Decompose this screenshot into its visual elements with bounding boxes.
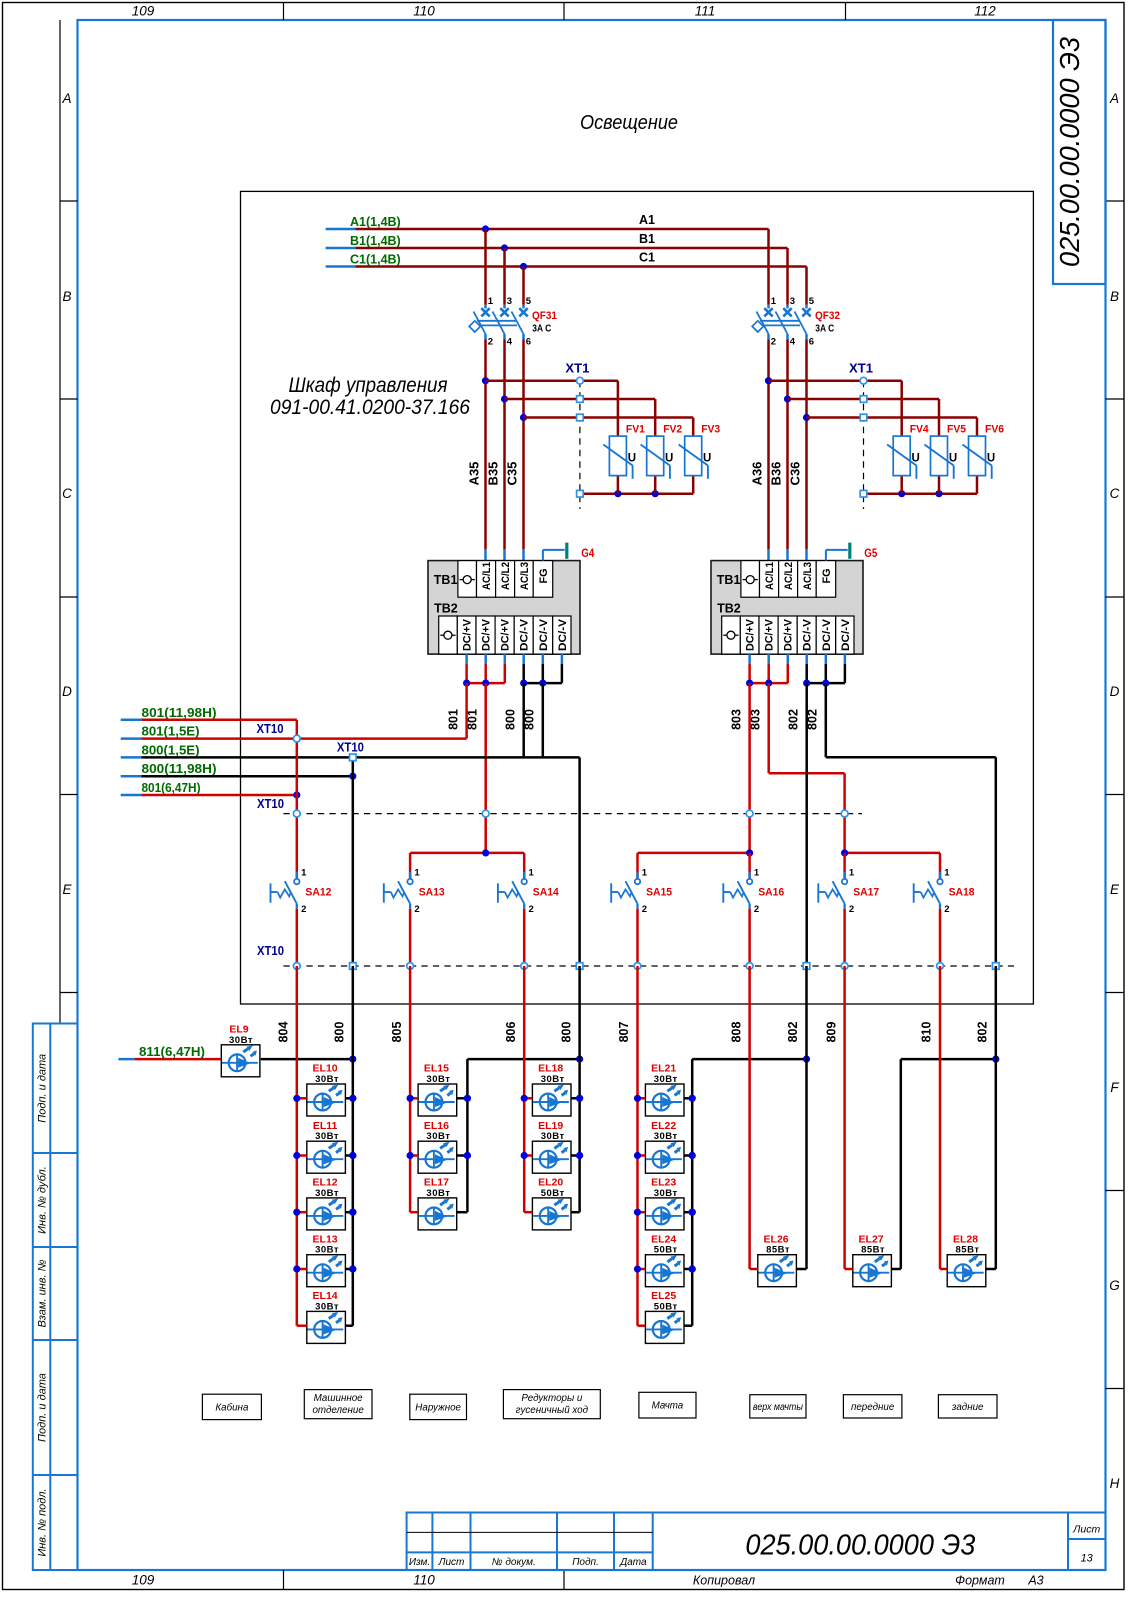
svg-text:3: 3: [507, 296, 512, 307]
svg-text:U: U: [912, 453, 920, 465]
svg-text:1: 1: [301, 868, 307, 879]
svg-text:DC/-V: DC/-V: [802, 618, 814, 651]
svg-text:5: 5: [526, 296, 532, 307]
svg-text:FV4: FV4: [910, 424, 930, 436]
svg-text:30Вт: 30Вт: [541, 1131, 565, 1142]
svg-text:Подп. и дата: Подп. и дата: [37, 1373, 49, 1442]
svg-text:Освещение: Освещение: [580, 112, 678, 134]
svg-text:DC/+V: DC/+V: [745, 618, 757, 651]
svg-text:Наружное: Наружное: [415, 1402, 461, 1413]
svg-text:025.00.00.0000 Э3: 025.00.00.0000 Э3: [745, 1530, 975, 1562]
svg-text:D: D: [1110, 684, 1120, 699]
svg-text:EL25: EL25: [651, 1290, 676, 1302]
svg-text:FV5: FV5: [947, 424, 966, 436]
svg-text:109: 109: [132, 4, 155, 19]
svg-text:1: 1: [754, 868, 760, 879]
svg-text:FV3: FV3: [701, 424, 720, 436]
svg-text:3A C: 3A C: [532, 324, 551, 335]
svg-text:809: 809: [824, 1022, 838, 1043]
svg-text:C36: C36: [788, 462, 803, 486]
svg-text:4: 4: [790, 337, 796, 348]
svg-text:3: 3: [790, 296, 795, 307]
svg-text:807: 807: [617, 1022, 631, 1043]
svg-text:Взам. инв. №: Взам. инв. №: [37, 1259, 49, 1327]
svg-text:DC/-V: DC/-V: [821, 618, 833, 651]
svg-text:XT1: XT1: [565, 362, 589, 376]
svg-text:B35: B35: [486, 462, 501, 486]
svg-text:85Вт: 85Вт: [861, 1245, 885, 1256]
svg-text:E: E: [1110, 882, 1120, 897]
svg-text:FV1: FV1: [626, 424, 645, 436]
svg-text:B36: B36: [769, 462, 784, 486]
svg-text:800: 800: [559, 1022, 573, 1043]
svg-text:85Вт: 85Вт: [956, 1245, 980, 1256]
svg-text:№ докум.: № докум.: [492, 1557, 536, 1568]
svg-text:DC/-V: DC/-V: [557, 618, 569, 651]
svg-text:800: 800: [333, 1022, 347, 1043]
svg-text:EL13: EL13: [313, 1233, 338, 1245]
svg-text:Изм.: Изм.: [409, 1557, 430, 1568]
svg-text:FV6: FV6: [985, 424, 1004, 436]
svg-text:3A C: 3A C: [815, 324, 834, 335]
svg-text:Копировал: Копировал: [693, 1574, 755, 1588]
svg-text:110: 110: [413, 1573, 435, 1588]
svg-text:30Вт: 30Вт: [315, 1245, 339, 1256]
svg-text:EL26: EL26: [764, 1233, 789, 1245]
svg-text:2: 2: [771, 337, 776, 348]
svg-text:U: U: [987, 453, 995, 465]
svg-text:Машинное: Машинное: [314, 1393, 364, 1404]
svg-text:C1: C1: [639, 251, 655, 265]
svg-text:EL18: EL18: [538, 1063, 563, 1075]
svg-text:U: U: [949, 453, 957, 465]
svg-text:110: 110: [413, 4, 435, 19]
svg-text:EL28: EL28: [953, 1233, 978, 1245]
svg-text:Подп. и дата: Подп. и дата: [37, 1054, 49, 1123]
svg-text:XT10: XT10: [257, 722, 284, 736]
svg-text:SA18: SA18: [949, 887, 975, 899]
svg-text:AC/L3: AC/L3: [802, 562, 814, 590]
svg-text:091-00.41.0200-37.166: 091-00.41.0200-37.166: [270, 396, 470, 419]
svg-text:1: 1: [529, 868, 535, 879]
svg-text:TB2: TB2: [717, 602, 741, 616]
svg-text:2: 2: [301, 904, 306, 915]
svg-text:C: C: [1110, 486, 1120, 501]
svg-text:G4: G4: [581, 546, 594, 560]
svg-text:DC/-V: DC/-V: [840, 618, 852, 651]
svg-text:2: 2: [488, 337, 493, 348]
svg-text:SA14: SA14: [533, 887, 560, 899]
svg-text:задние: задние: [951, 1402, 984, 1413]
svg-text:1: 1: [488, 296, 494, 307]
svg-text:EL10: EL10: [313, 1063, 338, 1075]
svg-text:30Вт: 30Вт: [426, 1131, 450, 1142]
svg-text:EL24: EL24: [651, 1233, 676, 1245]
svg-text:2: 2: [414, 904, 419, 915]
svg-text:30Вт: 30Вт: [654, 1131, 678, 1142]
svg-text:2: 2: [529, 904, 534, 915]
svg-text:FG: FG: [538, 569, 550, 584]
svg-text:808: 808: [729, 1022, 743, 1043]
svg-text:C: C: [62, 486, 72, 501]
svg-text:A35: A35: [467, 462, 482, 486]
svg-text:30Вт: 30Вт: [541, 1074, 565, 1085]
svg-text:C1(1,4B): C1(1,4B): [350, 253, 401, 267]
svg-text:D: D: [62, 684, 72, 699]
svg-text:A: A: [61, 91, 71, 106]
svg-text:EL11: EL11: [313, 1120, 338, 1132]
svg-text:верх мачты: верх мачты: [753, 1402, 804, 1413]
svg-text:U: U: [665, 453, 673, 465]
svg-text:XT10: XT10: [257, 797, 284, 811]
svg-text:EL27: EL27: [859, 1233, 884, 1245]
svg-text:803: 803: [729, 709, 743, 730]
svg-text:G: G: [1109, 1278, 1120, 1293]
svg-text:TB1: TB1: [434, 573, 458, 587]
svg-text:802: 802: [787, 709, 801, 730]
svg-text:H: H: [1110, 1476, 1120, 1491]
svg-text:EL17: EL17: [424, 1177, 449, 1189]
svg-text:EL9: EL9: [229, 1023, 248, 1035]
svg-text:2: 2: [754, 904, 759, 915]
svg-text:E: E: [62, 882, 72, 897]
svg-text:Формат: Формат: [955, 1574, 1005, 1588]
svg-text:50Вт: 50Вт: [541, 1188, 565, 1199]
svg-text:A: A: [1109, 91, 1119, 106]
svg-text:30Вт: 30Вт: [315, 1301, 339, 1312]
svg-text:DC/-V: DC/-V: [538, 618, 550, 651]
svg-text:SA16: SA16: [758, 887, 784, 899]
svg-text:85Вт: 85Вт: [766, 1245, 790, 1256]
svg-text:DC/+V: DC/+V: [764, 618, 776, 651]
svg-text:4: 4: [507, 337, 513, 348]
svg-text:Дата: Дата: [619, 1557, 647, 1568]
svg-text:30Вт: 30Вт: [426, 1188, 450, 1199]
svg-text:AC/L2: AC/L2: [500, 562, 512, 590]
svg-text:801: 801: [446, 709, 460, 730]
svg-text:SA13: SA13: [419, 887, 445, 899]
svg-text:U: U: [628, 453, 636, 465]
svg-text:1: 1: [849, 868, 855, 879]
svg-text:DC/+V: DC/+V: [462, 618, 474, 651]
svg-text:13: 13: [1081, 1553, 1094, 1565]
svg-text:1: 1: [944, 868, 950, 879]
svg-text:U: U: [703, 453, 711, 465]
svg-text:800(11,98H): 800(11,98H): [142, 762, 217, 776]
svg-text:6: 6: [809, 337, 814, 348]
svg-text:XT1: XT1: [849, 362, 873, 376]
svg-text:804: 804: [277, 1022, 291, 1043]
svg-text:5: 5: [809, 296, 815, 307]
svg-text:Лист: Лист: [1072, 1524, 1100, 1536]
svg-text:AC/L1: AC/L1: [481, 562, 493, 590]
svg-text:A36: A36: [750, 462, 765, 486]
svg-text:805: 805: [390, 1022, 404, 1043]
svg-text:2: 2: [849, 904, 854, 915]
svg-text:6: 6: [526, 337, 531, 348]
svg-text:DC/+V: DC/+V: [783, 618, 795, 651]
svg-text:802: 802: [786, 1022, 800, 1043]
svg-text:AC/L2: AC/L2: [783, 562, 795, 590]
svg-text:B: B: [62, 289, 71, 304]
svg-text:G5: G5: [864, 546, 877, 560]
svg-text:B: B: [1110, 289, 1119, 304]
svg-text:А3: А3: [1027, 1574, 1043, 1588]
svg-text:EL12: EL12: [313, 1177, 338, 1189]
svg-text:QF32: QF32: [815, 310, 840, 322]
svg-text:811(6,47H): 811(6,47H): [139, 1045, 205, 1059]
svg-text:A1(1,4B): A1(1,4B): [350, 215, 401, 229]
svg-text:EL23: EL23: [651, 1177, 676, 1189]
svg-text:109: 109: [132, 1573, 155, 1588]
svg-text:50Вт: 50Вт: [654, 1245, 678, 1256]
svg-text:025.00.00.0000 Э3: 025.00.00.0000 Э3: [1054, 37, 1085, 267]
svg-text:30Вт: 30Вт: [426, 1074, 450, 1085]
svg-text:SA12: SA12: [305, 887, 331, 899]
svg-text:A1: A1: [639, 213, 655, 227]
svg-text:AC/L3: AC/L3: [519, 562, 531, 590]
svg-text:1: 1: [414, 868, 420, 879]
svg-text:EL21: EL21: [651, 1063, 676, 1075]
svg-text:800(1,5E): 800(1,5E): [142, 743, 200, 757]
svg-text:Редукторы и: Редукторы и: [521, 1393, 583, 1404]
svg-text:30Вт: 30Вт: [315, 1188, 339, 1199]
svg-text:C35: C35: [505, 462, 520, 486]
svg-text:SA17: SA17: [853, 887, 879, 899]
svg-text:XT10: XT10: [257, 944, 284, 958]
svg-text:30Вт: 30Вт: [654, 1074, 678, 1085]
svg-text:EL22: EL22: [651, 1120, 676, 1132]
svg-text:EL14: EL14: [313, 1290, 338, 1302]
svg-text:DC/+V: DC/+V: [500, 618, 512, 651]
svg-text:Инв. № подл.: Инв. № подл.: [37, 1488, 49, 1556]
svg-text:112: 112: [974, 4, 996, 19]
svg-text:1: 1: [771, 296, 777, 307]
svg-text:B1: B1: [639, 232, 655, 246]
svg-text:Мачта: Мачта: [652, 1401, 684, 1412]
svg-text:QF31: QF31: [532, 310, 557, 322]
svg-text:2: 2: [642, 904, 647, 915]
svg-text:отделение: отделение: [312, 1405, 364, 1416]
svg-text:810: 810: [920, 1022, 934, 1043]
svg-text:F: F: [1110, 1080, 1119, 1095]
svg-text:EL19: EL19: [538, 1120, 563, 1132]
svg-text:Подп.: Подп.: [572, 1557, 599, 1568]
svg-text:TB1: TB1: [717, 573, 741, 587]
svg-text:Шкаф управления: Шкаф управления: [289, 374, 448, 397]
svg-text:XT10: XT10: [337, 741, 364, 755]
svg-text:EL15: EL15: [424, 1063, 449, 1075]
svg-text:Кабина: Кабина: [215, 1402, 249, 1413]
svg-text:30Вт: 30Вт: [315, 1074, 339, 1085]
svg-text:B1(1,4B): B1(1,4B): [350, 234, 401, 248]
svg-text:EL20: EL20: [538, 1177, 563, 1189]
svg-text:2: 2: [944, 904, 949, 915]
svg-text:AC/L1: AC/L1: [764, 562, 776, 590]
svg-text:802: 802: [976, 1022, 990, 1043]
svg-text:30Вт: 30Вт: [654, 1188, 678, 1199]
svg-text:30Вт: 30Вт: [315, 1131, 339, 1142]
svg-text:гусеничный ход: гусеничный ход: [516, 1405, 589, 1416]
svg-text:FV2: FV2: [663, 424, 682, 436]
svg-text:Инв. № дубл.: Инв. № дубл.: [37, 1166, 49, 1234]
svg-text:801(11,98H): 801(11,98H): [142, 706, 217, 720]
svg-text:30Вт: 30Вт: [229, 1035, 253, 1046]
svg-text:DC/-V: DC/-V: [519, 618, 531, 651]
svg-text:801(1,5E): 801(1,5E): [142, 725, 200, 739]
svg-text:SA15: SA15: [646, 887, 672, 899]
svg-text:111: 111: [695, 4, 716, 19]
svg-text:800: 800: [504, 709, 518, 730]
svg-text:806: 806: [504, 1022, 518, 1043]
svg-text:801(6,47H): 801(6,47H): [142, 781, 201, 795]
svg-text:передние: передние: [851, 1402, 895, 1413]
svg-text:FG: FG: [821, 569, 833, 584]
svg-text:1: 1: [642, 868, 648, 879]
svg-text:DC/+V: DC/+V: [481, 618, 493, 651]
svg-text:EL16: EL16: [424, 1120, 449, 1132]
svg-text:TB2: TB2: [434, 602, 458, 616]
svg-text:50Вт: 50Вт: [654, 1301, 678, 1312]
svg-text:Лист: Лист: [438, 1557, 465, 1568]
